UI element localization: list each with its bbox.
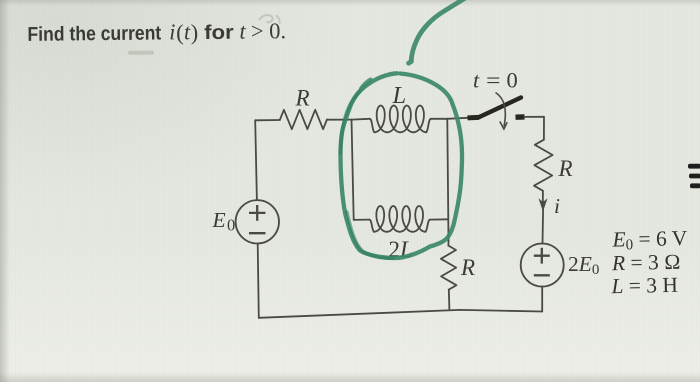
title: problem statement text <box>27 18 286 46</box>
label t = 0 <box>473 68 518 93</box>
svg-text:L = 3 H: L = 3 H <box>610 273 678 298</box>
svg-text:t: t <box>239 19 246 44</box>
green marker darker overlay segments <box>341 92 393 258</box>
wire: parallel section down to resistor R3 <box>447 241 449 246</box>
wire: switch to right rail corner <box>525 117 545 140</box>
svg-text:R: R <box>558 156 573 181</box>
wire: top-left horizontal segment <box>255 119 280 121</box>
resistor R2 (right branch, vertical zigzag) <box>534 140 553 191</box>
svg-text:L: L <box>392 82 407 109</box>
left rail wire (top corner down to E0) <box>255 120 257 200</box>
faint smudge under title <box>128 51 154 55</box>
bottom rail wire <box>259 310 542 318</box>
wire: resistor R3 to bottom rail <box>448 290 451 310</box>
wire: arrow to source 2E0 <box>542 210 545 244</box>
switch (t=0): left terminal pad <box>468 115 480 121</box>
green marker swoosh (top) <box>409 0 483 63</box>
voltage source 2E0 (circle with +/-) <box>521 244 564 287</box>
svg-text:R = 3 Ω: R = 3 Ω <box>611 250 681 275</box>
wire: top to switch left terminal <box>447 118 468 119</box>
svg-text:=: = <box>486 68 501 93</box>
svg-text:R: R <box>460 255 475 280</box>
svg-text:(: ( <box>176 20 184 45</box>
svg-text:): ) <box>191 20 199 45</box>
svg-text:i: i <box>169 19 176 44</box>
resistor R3 (bottom middle, vertical zigzag) <box>441 246 457 290</box>
svg-text:i: i <box>554 194 560 218</box>
svg-text:0: 0 <box>227 216 235 235</box>
faint pencil squiggle above title end <box>259 15 280 24</box>
svg-text:for: for <box>204 22 234 44</box>
wire: source 2E0 to bottom rail <box>541 287 543 312</box>
inductor L (top coil) <box>352 106 448 133</box>
svg-text:t: t <box>473 68 480 93</box>
inductor 2L (bottom coil) <box>354 206 449 232</box>
svg-text:Find the current: Find the current <box>27 22 161 45</box>
green marker oval around inductors <box>340 73 462 258</box>
switch blade <box>478 98 521 118</box>
wire: parallel-section left vertical <box>352 120 354 220</box>
wire: resistor R1 to parallel section <box>327 119 352 121</box>
wire: parallel-section right vertical <box>447 119 448 241</box>
wire: E0 down to bottom rail <box>258 244 259 318</box>
given values text block <box>609 226 689 298</box>
voltage source E0 (circle with +/-) <box>236 200 279 243</box>
current arrow i <box>539 191 546 211</box>
partial menu icon at right edge <box>688 164 700 188</box>
switch closing arrow (curved) <box>496 93 508 130</box>
resistor R1 (top left, horizontal zigzag) <box>280 110 327 129</box>
switch right terminal pad <box>516 114 525 120</box>
svg-text:R: R <box>295 86 310 111</box>
svg-text:0: 0 <box>507 68 518 93</box>
svg-text:E: E <box>212 208 226 232</box>
svg-text:2E0: 2E0 <box>568 252 599 278</box>
green marker oval start tail <box>361 80 371 89</box>
